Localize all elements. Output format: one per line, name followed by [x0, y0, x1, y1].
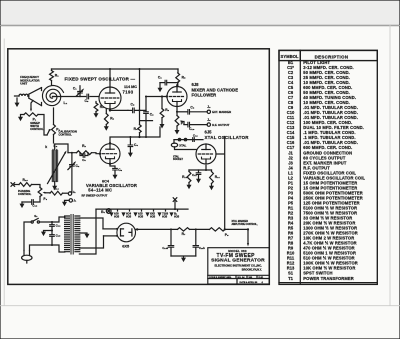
ground (C6) [158, 88, 163, 93]
resistor R9 [161, 95, 163, 97]
wire 6J5 cathode rail [205, 166, 207, 171]
jack J4 rf output [207, 123, 210, 126]
tube V4 6C4 [100, 144, 120, 164]
wire coupling line [128, 109, 132, 111]
wire C2 path to J2 [70, 191, 72, 193]
parts table double bottom line [279, 282, 377, 284]
transformer T1 secondary [75, 216, 80, 252]
capacitor C1 trimmer [79, 94, 81, 97]
svg-text:CONTROL: CONTROL [59, 132, 73, 136]
ground (R6) [104, 126, 109, 131]
svg-text:J₃: J₃ [207, 105, 211, 109]
wire HV secondary top [79, 218, 103, 229]
svg-text:NO. 04: NO. 04 [238, 276, 246, 279]
ground (R3) [94, 113, 99, 118]
wire heater winding [79, 209, 96, 254]
svg-text:XTAL MARKER: XTAL MARKER [232, 220, 249, 223]
svg-text:C₃: C₃ [82, 158, 86, 162]
svg-text:BROOKLYN,N.Y.: BROOKLYN,N.Y. [242, 267, 262, 271]
svg-text:CONTROL: CONTROL [18, 192, 32, 196]
svg-text:CODE 5 SWEEP GEN.: CODE 5 SWEEP GEN. [209, 277, 232, 279]
wire L1 center out [53, 96, 55, 98]
resistor R6 [105, 109, 107, 114]
svg-text:B₁: B₁ [101, 210, 105, 214]
svg-text:6O5: 6O5 [138, 215, 144, 219]
potentiometer P4 [176, 112, 178, 116]
coil L2 [53, 150, 57, 182]
ground (line caps) [44, 230, 53, 233]
resistor R5 [176, 73, 180, 83]
node x left [11, 183, 15, 187]
ground (T1 center tap) [79, 232, 87, 235]
ground (J1) [65, 200, 70, 201]
svg-text:6O5: 6O5 [114, 215, 120, 219]
tube V3 6J5 [196, 144, 216, 164]
ground (C16) [21, 202, 23, 203]
scan bottom edge [0, 305, 400, 307]
capacitor C5 [87, 94, 89, 99]
svg-text:R₁₀: R₁₀ [54, 187, 60, 191]
svg-text:SIGNAL GENERATOR: SIGNAL GENERATOR [211, 258, 265, 264]
resistor R12 [188, 170, 190, 172]
coil L2 tuning arrow [48, 153, 66, 183]
wire to 6X5 plates [103, 228, 117, 230]
wire heater bus [96, 208, 188, 210]
ground (C11) [196, 179, 201, 184]
svg-text:C₁₃b: C₁₃b [199, 246, 205, 250]
wire L2 top to grid ladder [55, 144, 68, 153]
wire V4 plate line [110, 127, 160, 144]
capacitor C6 [160, 82, 165, 84]
jack J2 60 cycles [68, 192, 71, 195]
svg-text:C₄: C₄ [134, 143, 138, 147]
node x heater [173, 198, 177, 202]
capacitor C15 line [51, 232, 53, 234]
svg-text:P₅: P₅ [225, 233, 229, 237]
wire P4 wiper to C10 [183, 122, 188, 125]
capacitor C9 grid [145, 97, 147, 111]
wire grid line [68, 153, 100, 154]
transformer T1 core [71, 215, 73, 255]
resistor R2 [77, 151, 92, 155]
resistor R7 [178, 228, 190, 231]
svg-text:R₁: R₁ [55, 73, 59, 77]
svg-text:AMPLITUDE CONTROL,: AMPLITUDE CONTROL, [232, 223, 258, 226]
wire xtal to grid [175, 147, 197, 150]
svg-text:C₅: C₅ [85, 99, 89, 103]
svg-text:R₄: R₄ [134, 127, 138, 131]
speaker cone [29, 88, 42, 106]
ground (P1) [21, 115, 25, 117]
ground (P4) [176, 126, 178, 130]
wire P2 bottom [53, 135, 55, 144]
svg-text:R₃: R₃ [100, 105, 104, 109]
svg-text:6X5: 6X5 [122, 243, 130, 248]
svg-text:k: k [45, 145, 47, 149]
capacitor C11 [198, 170, 200, 172]
capacitor C13a filter [170, 228, 172, 230]
svg-text:C₁₆: C₁₆ [32, 204, 37, 208]
capacitor C10 [188, 122, 190, 127]
svg-text:R₁₃: R₁₃ [23, 178, 29, 182]
svg-text:CONTROL: CONTROL [30, 127, 44, 131]
modulator drive coil [19, 94, 28, 96]
svg-text:FOLLOWER: FOLLOWER [192, 93, 217, 98]
svg-text:54–114 MC: 54–114 MC [88, 188, 112, 193]
wire P3 bottom to C16 [34, 197, 40, 203]
wire mixer cathode [176, 107, 178, 112]
svg-text:C₁: C₁ [73, 87, 77, 91]
wire V1 out [110, 109, 128, 110]
svg-text:C₆: C₆ [158, 76, 162, 80]
schematic border frame [8, 49, 270, 285]
svg-text:L₁: L₁ [64, 101, 68, 105]
scan left edge [3, 39, 5, 305]
ground (R9) [160, 124, 165, 129]
potentiometer P2 [53, 108, 55, 125]
svg-text:114 MC: 114 MC [124, 85, 137, 89]
capacitor C3a parallel [80, 153, 88, 156]
svg-text:P₃: P₃ [43, 197, 47, 201]
capacitor C16 [32, 200, 34, 205]
transformer T1 primary [65, 216, 70, 252]
svg-text:6O5: 6O5 [174, 215, 180, 219]
wire L2 bottom [54, 182, 56, 186]
svg-text:C₁₅: C₁₅ [56, 234, 61, 238]
svg-text:R₉: R₉ [165, 108, 169, 112]
node junction riser [139, 109, 141, 111]
svg-text:EXT. MARKER: EXT. MARKER [212, 110, 231, 114]
ground (C9) [113, 175, 118, 180]
potentiometer P3 [38, 188, 42, 197]
svg-text:J₄: J₄ [207, 118, 211, 122]
resistor R1 [51, 69, 53, 71]
svg-text:D-51: D-51 [259, 277, 265, 279]
wire plug hot to S1 [24, 222, 31, 251]
wire HV secondary bottom [79, 236, 103, 248]
svg-text:C₁₀: C₁₀ [189, 127, 195, 131]
switch S1 [31, 221, 33, 223]
svg-text:ELECTRONIC INSTRUMENT CO.,INC.: ELECTRONIC INSTRUMENT CO.,INC. [214, 263, 262, 267]
svg-text:MIXER AND CATHODE: MIXER AND CATHODE [192, 87, 239, 92]
wire bus to R5 [177, 69, 179, 73]
parts table outer box [279, 50, 377, 284]
title block box [208, 248, 269, 284]
capacitor C4 [129, 137, 131, 144]
svg-text:R₂: R₂ [82, 144, 86, 148]
capacitor C13b filter [195, 228, 197, 230]
ground (modulator coil) [16, 98, 18, 102]
wire coil to cone [27, 95, 30, 97]
svg-text:R.F. OUTPUT: R.F. OUTPUT [212, 123, 230, 127]
tube V1 7193 fixed oscillator [99, 87, 121, 109]
wire filter ground rail [171, 256, 196, 257]
svg-text:R₆: R₆ [110, 117, 114, 121]
resistor R4 [139, 110, 141, 124]
svg-text:DESCRIPTION: DESCRIPTION [315, 54, 349, 59]
svg-text:SYMBOL: SYMBOL [281, 54, 300, 59]
capacitor C14 line [51, 222, 53, 224]
tube V5 6X5 rectifier [117, 223, 136, 242]
jack J3 ext marker [207, 110, 210, 113]
svg-text:C₈: C₈ [131, 103, 135, 107]
svg-text:DATE 4 APRIL 50: DATE 4 APRIL 50 [240, 281, 258, 284]
resistor R11 [211, 170, 213, 172]
svg-text:R₅: R₅ [182, 75, 186, 79]
svg-text:XTAL OSCILLATOR: XTAL OSCILLATOR [205, 135, 250, 140]
svg-text:FIXED SWEPT OSCILLATOR —: FIXED SWEPT OSCILLATOR — [65, 77, 136, 82]
svg-text:6O5: 6O5 [126, 215, 132, 219]
resistor R10 output [46, 192, 51, 194]
svg-text:XTAL: XTAL [179, 143, 186, 147]
wire mixer grid loop [135, 97, 167, 111]
wire P1 wiper up [31, 101, 33, 109]
svg-text:UNIT: UNIT [20, 82, 27, 86]
svg-text:C₁₁: C₁₁ [192, 173, 197, 177]
svg-text:C₉: C₉ [150, 112, 154, 116]
wire B+ arrow to title [247, 229, 249, 243]
svg-text:T1: T1 [288, 276, 294, 281]
wire P1 to P2 [38, 115, 47, 136]
capacitor C2 trimmer [71, 153, 73, 164]
svg-text:C₁₄: C₁₄ [56, 224, 61, 228]
heater taps with labels [117, 209, 119, 211]
svg-text:RF SWEEP OUTPUT: RF SWEEP OUTPUT [82, 194, 108, 198]
svg-text:C₁₃a: C₁₃a [162, 246, 168, 250]
capacitor C12 [193, 138, 195, 142]
resistor R13 [15, 184, 19, 186]
tube V2 6J8 mixer [167, 87, 187, 107]
ground (C4) [128, 153, 133, 158]
parts table header box [279, 50, 377, 60]
xtal socket contacts [178, 138, 180, 140]
wire V1 plate to bus [109, 69, 111, 87]
wire B+ chain [136, 228, 178, 230]
svg-text:R₁₂: R₁₂ [182, 175, 188, 179]
coil L1 spiral [43, 86, 64, 106]
wire S1 to primary [40, 217, 65, 222]
svg-text:R₁₁: R₁₁ [215, 175, 221, 179]
svg-text:6J8: 6J8 [192, 82, 200, 87]
capacitor C8 output [177, 111, 188, 113]
svg-text:C₁₂: C₁₂ [193, 134, 198, 138]
ground (R11) [209, 186, 214, 191]
capacitor C9 cathode [110, 164, 115, 168]
title block inner lines [208, 275, 269, 284]
svg-text:POWER TRANSFORMER: POWER TRANSFORMER [303, 276, 353, 281]
potentiometer P5 [210, 228, 226, 231]
wire top B+ bus [52, 68, 179, 70]
svg-text:SOCKET: SOCKET [173, 158, 184, 161]
svg-text:6O5: 6O5 [150, 215, 156, 219]
scan right edge [389, 26, 391, 306]
potentiometer P1 [24, 113, 38, 116]
ac plug [24, 251, 30, 256]
parts table column line [299, 50, 301, 284]
svg-text:C₂: C₂ [76, 164, 80, 168]
capacitor C8 coupling [133, 108, 135, 113]
resistor R3 [95, 102, 97, 104]
svg-text:6O5: 6O5 [162, 215, 168, 219]
wire 6J5 plate riser [216, 137, 225, 230]
svg-text:C₉: C₉ [118, 168, 122, 172]
scan top band [0, 0, 400, 26]
wire xtal line [174, 139, 203, 141]
jack J1 ground [69, 199, 72, 202]
ground (L2) [52, 186, 57, 191]
svg-text:7193: 7193 [123, 90, 134, 95]
ground (R12) [187, 185, 192, 190]
svg-text:P₁: P₁ [33, 117, 37, 121]
wire plug neutral [30, 245, 65, 252]
wire grid from L1 [53, 96, 86, 98]
svg-text:C₈: C₈ [190, 105, 194, 109]
crystal XTAL [173, 140, 175, 144]
ground (filter caps) [181, 258, 186, 263]
